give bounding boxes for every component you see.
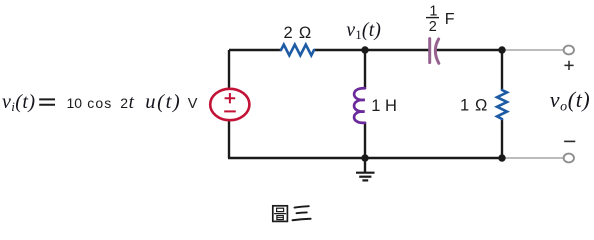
voltage source minus sign [224, 110, 236, 112]
svg-text:vo(t): vo(t) [550, 87, 591, 115]
svg-text:V: V [188, 96, 198, 112]
glyph tu (enclosure) [273, 206, 288, 222]
svg-text:2: 2 [120, 95, 128, 111]
svg-text:u(t): u(t) [145, 91, 181, 113]
minus sign output [564, 140, 575, 142]
svg-text:vi(t): vi(t) [2, 91, 35, 114]
node dot top-right [498, 46, 505, 53]
resistor R 2ohm [281, 45, 314, 56]
output terminal top [564, 46, 574, 55]
wire top-left segment [229, 49, 281, 51]
voltage source Vs ellipse [210, 89, 249, 120]
svg-text:1 Ω: 1 Ω [460, 97, 488, 115]
svg-text:cos: cos [87, 95, 112, 111]
node dot bottom-middle [361, 154, 368, 161]
svg-text:10: 10 [67, 95, 83, 111]
wire left vertical [228, 50, 230, 90]
wire right branch upper [501, 50, 503, 90]
plus sign output [564, 61, 573, 70]
svg-text:t: t [129, 92, 135, 113]
label 1/2 F fraction [426, 4, 455, 35]
output lead top (gray) [502, 49, 564, 51]
node dot bottom-right [498, 154, 505, 161]
capacitor C 1/2 F right plate (arc) [435, 39, 438, 63]
wire middle branch lower [364, 123, 366, 159]
resistor R 1ohm (vertical) [497, 90, 507, 119]
svg-text:F: F [445, 11, 455, 28]
svg-text:2 Ω: 2 Ω [284, 24, 313, 42]
ground symbol [356, 158, 375, 180]
svg-text:v1(t): v1(t) [346, 20, 381, 42]
wire left vertical lower [228, 119, 230, 158]
wire right branch lower [501, 119, 503, 158]
glyph three [295, 206, 309, 207]
wire top-middle segment [314, 49, 429, 51]
svg-text:2: 2 [429, 19, 437, 35]
caption figure three (drawn glyphs) [273, 206, 311, 222]
capacitor C 1/2 F left plate [428, 39, 431, 63]
wire bottom [228, 157, 502, 159]
node dot top-middle [361, 46, 368, 53]
wire middle branch upper [364, 50, 366, 89]
inductor L 1H [354, 88, 365, 123]
output lead bottom (gray) [502, 157, 564, 159]
output terminal bottom [564, 154, 574, 163]
voltage source plus sign [225, 93, 236, 103]
svg-text:1 H: 1 H [371, 97, 397, 115]
wire top-right segment [436, 49, 502, 51]
equation vi(t) = 10 cos 2t u(t) V [2, 91, 198, 114]
